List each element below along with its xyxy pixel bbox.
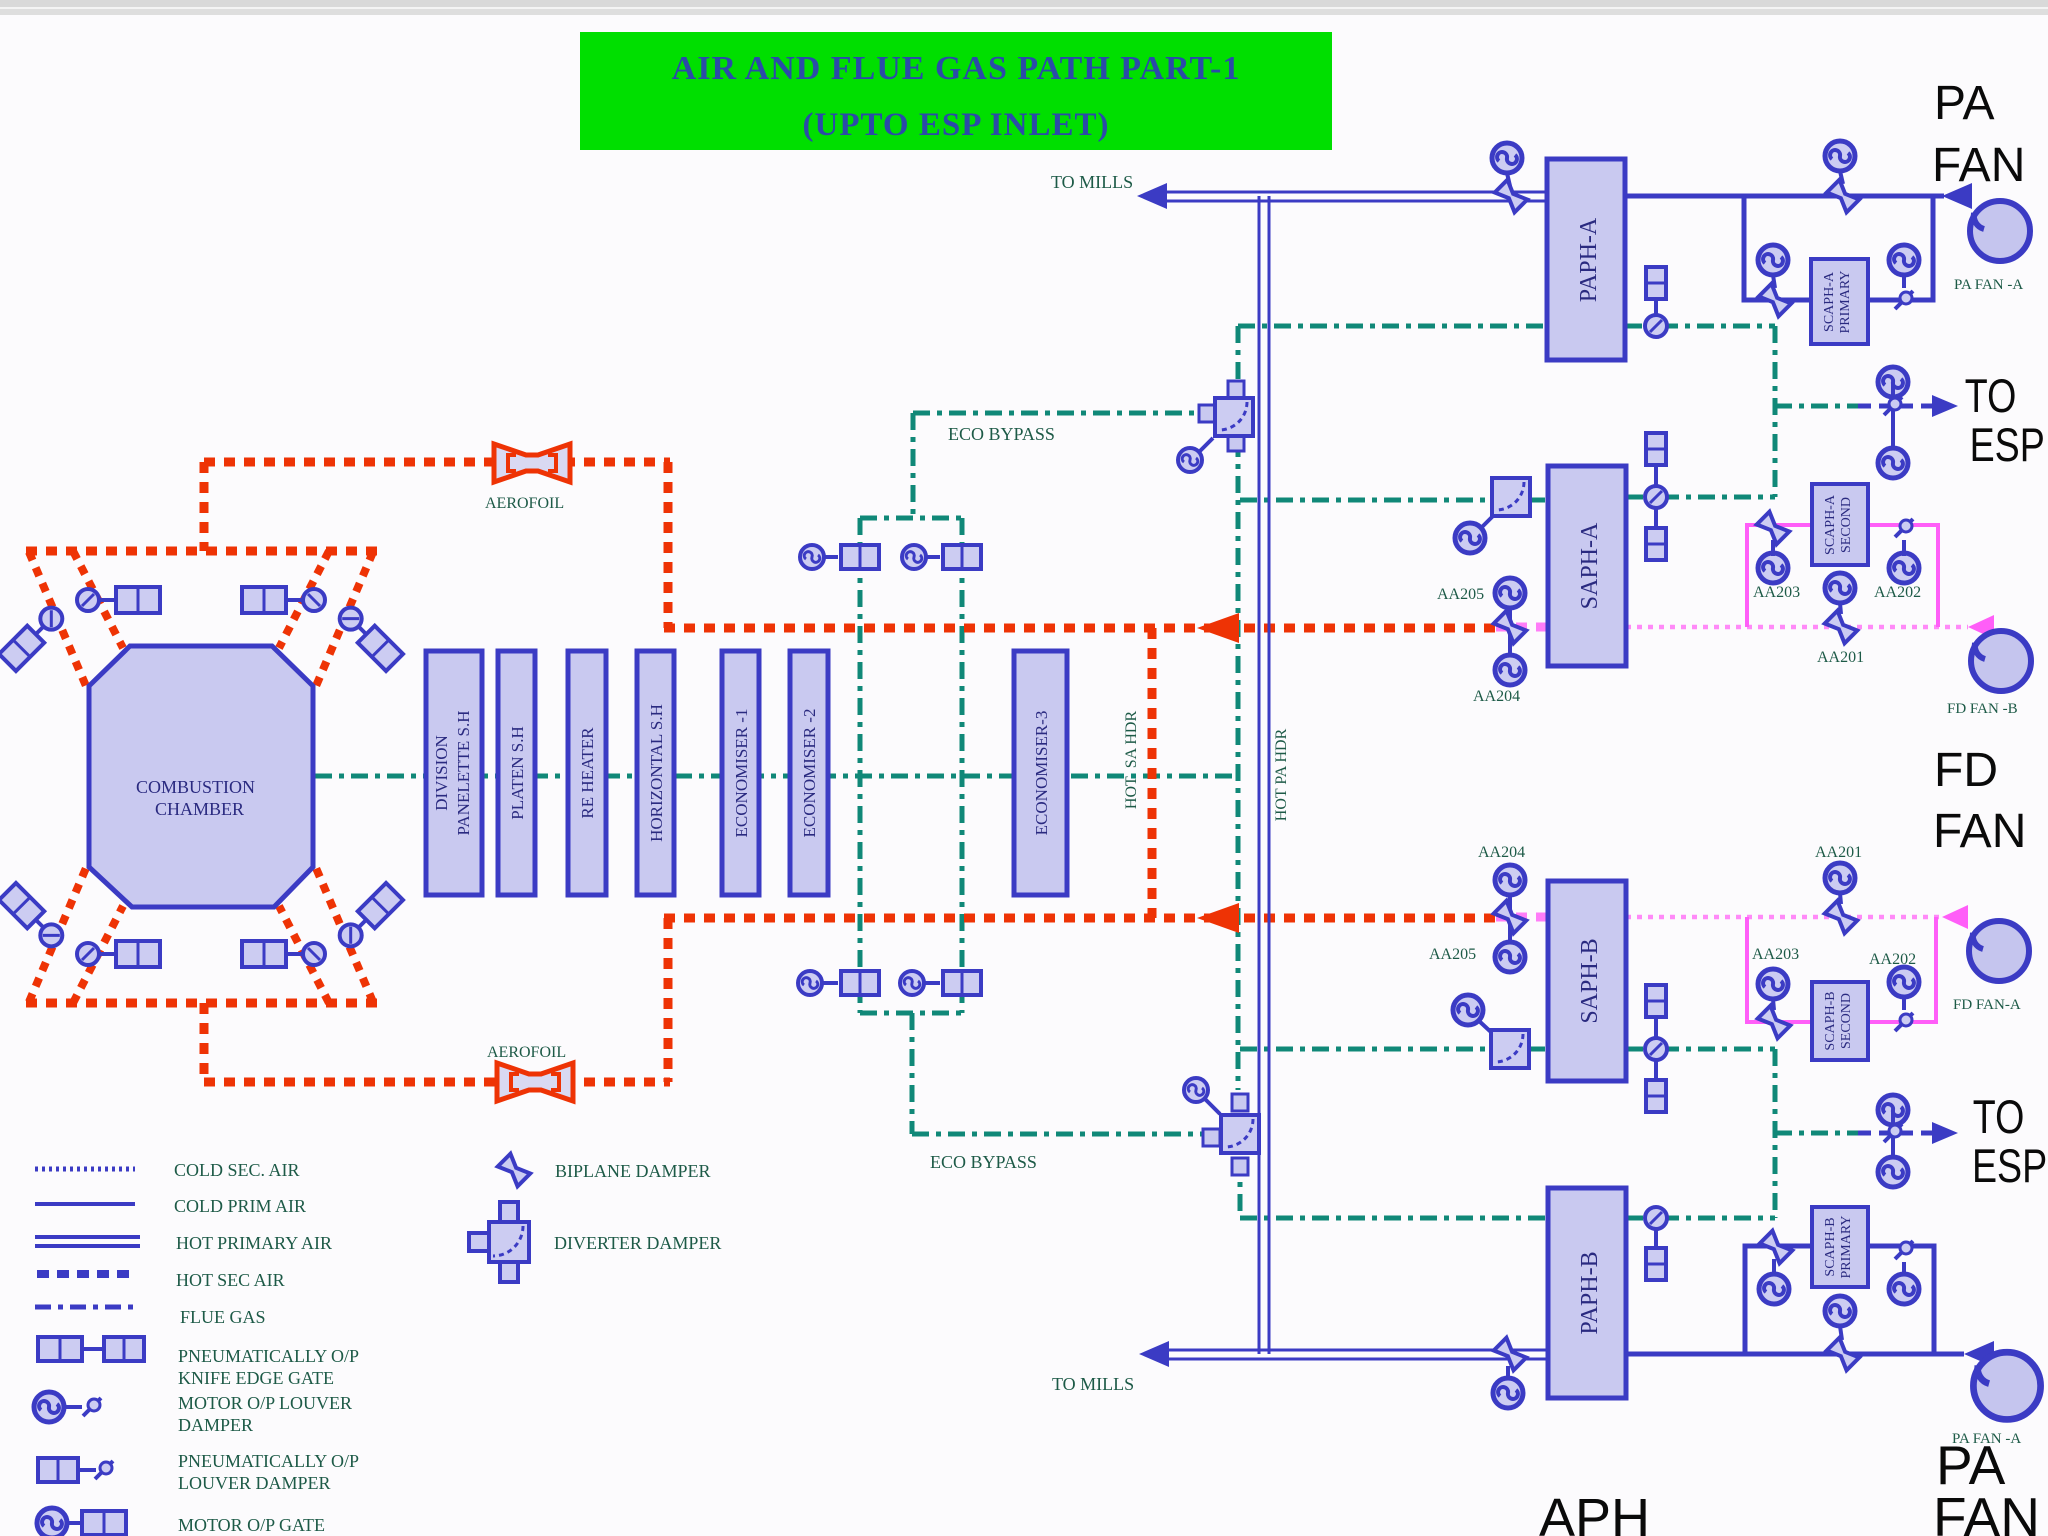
svg-text:HOT SA HDR: HOT SA HDR (1123, 711, 1140, 810)
svg-text:PA FAN -A: PA FAN -A (1954, 277, 2023, 293)
svg-text:BIPLANE DAMPER: BIPLANE DAMPER (555, 1161, 711, 1181)
svg-text:PRIMARY: PRIMARY (1839, 1215, 1854, 1278)
svg-text:SCAPH-A: SCAPH-A (1823, 494, 1838, 555)
svg-text:AA204: AA204 (1478, 844, 1525, 861)
svg-text:(UPTO ESP INLET): (UPTO ESP INLET) (803, 107, 1110, 143)
svg-text:SAPH-B: SAPH-B (1577, 938, 1603, 1023)
svg-text:PNEUMATICALLY O/P: PNEUMATICALLY O/P (178, 1346, 359, 1366)
svg-text:SAPH-A: SAPH-A (1577, 522, 1603, 609)
svg-text:FAN: FAN (1933, 1486, 2040, 1536)
svg-text:DIVISION: DIVISION (432, 735, 451, 811)
svg-text:FAN: FAN (1932, 139, 2025, 192)
svg-text:CHAMBER: CHAMBER (155, 799, 244, 819)
svg-text:PANELETTE S.H: PANELETTE S.H (454, 711, 473, 836)
svg-text:SCAPH-A: SCAPH-A (1822, 271, 1837, 332)
svg-text:LOUVER DAMPER: LOUVER DAMPER (178, 1473, 331, 1493)
svg-text:PA: PA (1934, 77, 1994, 130)
svg-text:COMBUSTION: COMBUSTION (136, 777, 255, 797)
svg-text:APH: APH (1539, 1488, 1650, 1536)
svg-text:AA201: AA201 (1817, 649, 1864, 666)
svg-text:ECONOMISER-3: ECONOMISER-3 (1032, 711, 1051, 836)
svg-text:FLUE GAS: FLUE GAS (180, 1307, 266, 1327)
svg-text:AA204: AA204 (1473, 688, 1520, 705)
svg-text:AIR AND FLUE GAS PATH PART-1: AIR AND FLUE GAS PATH PART-1 (672, 50, 1241, 87)
svg-text:SCAPH-B: SCAPH-B (1823, 991, 1838, 1050)
svg-text:TO: TO (1965, 370, 2017, 423)
svg-text:TO MILLS: TO MILLS (1051, 172, 1133, 192)
svg-text:AA202: AA202 (1869, 951, 1916, 968)
svg-text:MOTOR O/P LOUVER: MOTOR O/P LOUVER (178, 1393, 352, 1413)
svg-text:HORIZONTAL S.H: HORIZONTAL S.H (647, 704, 666, 842)
svg-text:KNIFE EDGE GATE: KNIFE EDGE GATE (178, 1368, 334, 1388)
svg-text:AA205: AA205 (1429, 946, 1476, 963)
svg-text:TO: TO (1973, 1091, 2025, 1144)
svg-text:COLD PRIM AIR: COLD PRIM AIR (174, 1196, 306, 1216)
svg-text:ECO BYPASS: ECO BYPASS (948, 424, 1055, 444)
svg-text:SCAPH-B: SCAPH-B (1823, 1217, 1838, 1276)
svg-text:ESP: ESP (1972, 1140, 2047, 1193)
svg-text:SECOND: SECOND (1839, 497, 1854, 553)
svg-text:FD: FD (1934, 744, 1998, 797)
svg-text:ECONOMISER -1: ECONOMISER -1 (732, 709, 751, 838)
svg-text:AEROFOIL: AEROFOIL (485, 495, 564, 512)
svg-text:HOT PRIMARY AIR: HOT PRIMARY AIR (176, 1233, 332, 1253)
svg-text:AA202: AA202 (1874, 584, 1921, 601)
svg-text:AA205: AA205 (1437, 586, 1484, 603)
svg-text:HOT SEC AIR: HOT SEC AIR (176, 1270, 285, 1290)
svg-text:AA203: AA203 (1753, 584, 1800, 601)
svg-text:RE HEATER: RE HEATER (578, 727, 597, 819)
svg-text:PNEUMATICALLY O/P: PNEUMATICALLY O/P (178, 1451, 359, 1471)
svg-text:AA201: AA201 (1815, 844, 1862, 861)
svg-text:ECONOMISER -2: ECONOMISER -2 (800, 709, 819, 838)
svg-text:DAMPER: DAMPER (178, 1415, 253, 1435)
svg-text:SECOND: SECOND (1839, 993, 1854, 1049)
svg-text:PRIMARY: PRIMARY (1838, 270, 1853, 333)
svg-text:FD FAN -B: FD FAN -B (1947, 701, 2018, 717)
svg-text:PAPH-B: PAPH-B (1577, 1251, 1603, 1334)
svg-text:ECO BYPASS: ECO BYPASS (930, 1152, 1037, 1172)
svg-text:FD FAN-A: FD FAN-A (1953, 997, 2021, 1013)
svg-text:DIVERTER DAMPER: DIVERTER DAMPER (554, 1233, 721, 1253)
svg-text:ESP: ESP (1970, 419, 2045, 472)
svg-text:AA203: AA203 (1752, 946, 1799, 963)
svg-text:TO MILLS: TO MILLS (1052, 1374, 1134, 1394)
svg-text:COLD SEC. AIR: COLD SEC. AIR (174, 1160, 300, 1180)
svg-text:PAPH-A: PAPH-A (1576, 217, 1602, 302)
svg-text:AEROFOIL: AEROFOIL (487, 1044, 566, 1061)
svg-text:PLATEN S.H: PLATEN S.H (508, 726, 527, 820)
svg-text:HOT PA HDR: HOT PA HDR (1273, 728, 1290, 821)
svg-text:MOTOR O/P GATE: MOTOR O/P GATE (178, 1515, 325, 1535)
svg-text:FAN: FAN (1933, 805, 2026, 858)
